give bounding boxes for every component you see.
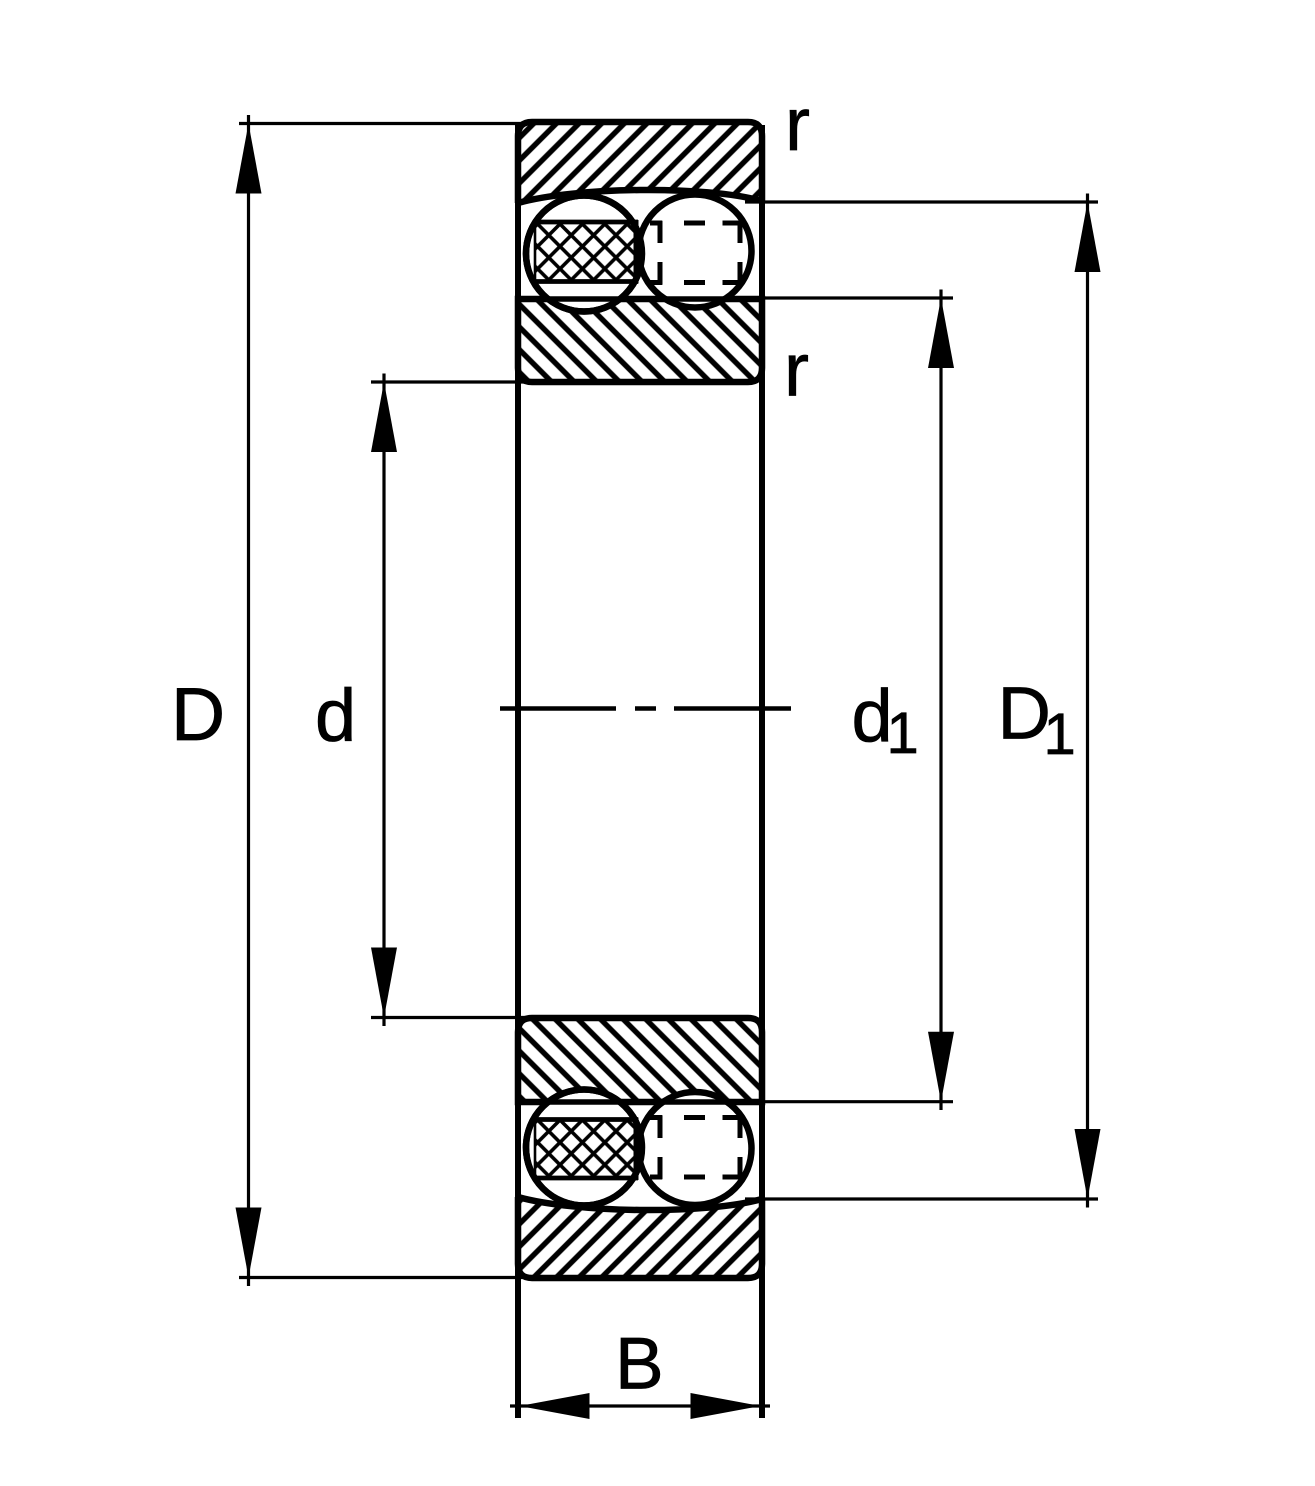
dimension d1 — [745, 290, 954, 1111]
inner ring shoulder line, top — [518, 296, 762, 301]
ball left outline restored, bottom — [526, 1090, 642, 1206]
ball right, top row (fill) — [639, 195, 752, 308]
inner ring bottom section — [500, 1010, 780, 1110]
outer ring bottom section — [500, 1190, 780, 1290]
svg-text:1: 1 — [887, 701, 919, 766]
ball left outline — [526, 196, 642, 312]
cage cross-section (cross-hatched), bottom row — [533, 1118, 638, 1181]
svg-text:1: 1 — [1044, 702, 1076, 767]
right side face line — [759, 125, 765, 1418]
ball left, bottom row — [526, 1090, 642, 1206]
cage hidden contour (dashed), top row — [650, 221, 743, 285]
ball left, top row — [526, 196, 642, 312]
dimension D1 — [745, 194, 1101, 1208]
ball right, bottom row (fill) — [639, 1092, 752, 1205]
outer ring top section — [500, 105, 780, 215]
ball left outline restored — [526, 196, 642, 312]
inner ring shoulder line, bottom — [518, 1099, 762, 1104]
svg-text:B: B — [615, 1324, 664, 1405]
svg-text:r: r — [785, 82, 810, 166]
svg-text:D: D — [171, 672, 225, 756]
outer raceway arc, top — [518, 190, 762, 203]
outer raceway arc, bottom — [518, 1197, 762, 1210]
cage hidden contour (dashed), bottom row — [650, 1116, 743, 1180]
dimension d — [371, 374, 535, 1027]
ball left outline bottom — [526, 1090, 642, 1206]
dimension D — [236, 115, 531, 1286]
dimension B — [510, 1393, 770, 1419]
centerline (bearing axis) — [500, 706, 791, 711]
ball right, top row (cover + outline) — [639, 195, 752, 308]
svg-text:r: r — [784, 328, 809, 412]
inner ring top section — [500, 290, 780, 390]
ball right, bottom row (cover + outline) — [639, 1092, 752, 1205]
cage cross-section (cross-hatched), top row — [533, 220, 638, 284]
svg-text:d: d — [315, 674, 356, 757]
left side face line — [515, 125, 521, 1418]
